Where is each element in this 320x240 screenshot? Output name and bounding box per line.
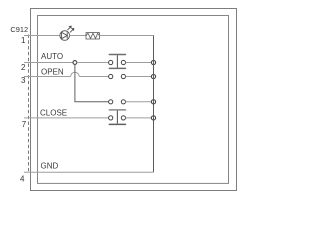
wire row3 switch to bus [126,101,152,103]
bus node AUTO row [151,60,155,64]
wire junction to AUTO switch [77,62,109,64]
svg-text:OPEN: OPEN [41,68,64,77]
svg-text:C912: C912 [10,25,28,34]
wire pin7 to CLOSE switch [24,117,109,119]
svg-text:1: 1 [21,36,26,45]
pushbutton actuator (CLOSE switch) [109,109,127,125]
svg-text:4: 4 [20,175,25,184]
wire pin1 to LED [24,35,60,37]
GND wire bus to pin4 [24,171,154,173]
wire hop over link [71,72,80,76]
bus node OPEN row [151,74,155,78]
row3 switch contact left [109,100,113,104]
junction node on AUTO wire [73,61,77,65]
bus node row3 [151,100,155,104]
svg-text:3: 3 [21,76,26,85]
wire CLOSE switch to bus [126,117,152,119]
resistor (boxed zigzag) [86,33,99,39]
svg-text:GND: GND [41,162,59,171]
wire OPEN switch to bus [126,76,152,78]
wire pin2 to junction [24,62,73,64]
bus node CLOSE row [151,116,155,120]
row3 switch contact right [121,100,125,104]
OPEN switch contact left [109,74,113,78]
inner circuit boundary box [38,16,229,184]
svg-text:2: 2 [21,63,26,72]
svg-text:7: 7 [22,120,27,129]
OPEN switch contact right [121,74,125,78]
AUTO switch contact right [121,60,125,64]
wire pin3 to hop [24,76,71,78]
AUTO switch contact left [109,60,113,64]
svg-text:CLOSE: CLOSE [40,109,67,118]
right vertical bus [153,36,155,173]
CLOSE switch contact left [109,116,113,120]
svg-text:AUTO: AUTO [41,52,63,61]
wire LED to resistor [69,35,86,37]
wire hop to OPEN switch [79,76,108,78]
CLOSE switch contact right [121,116,125,120]
LED indicator lamp [60,26,74,40]
pushbutton actuator (AUTO switch) [109,54,127,69]
connector C912 dashed boundary line [28,35,30,173]
wire AUTO switch to bus [126,62,152,64]
link wire junction down to row3 [75,64,109,101]
outer device boundary box [31,9,237,191]
wire resistor to bus top [99,35,153,37]
